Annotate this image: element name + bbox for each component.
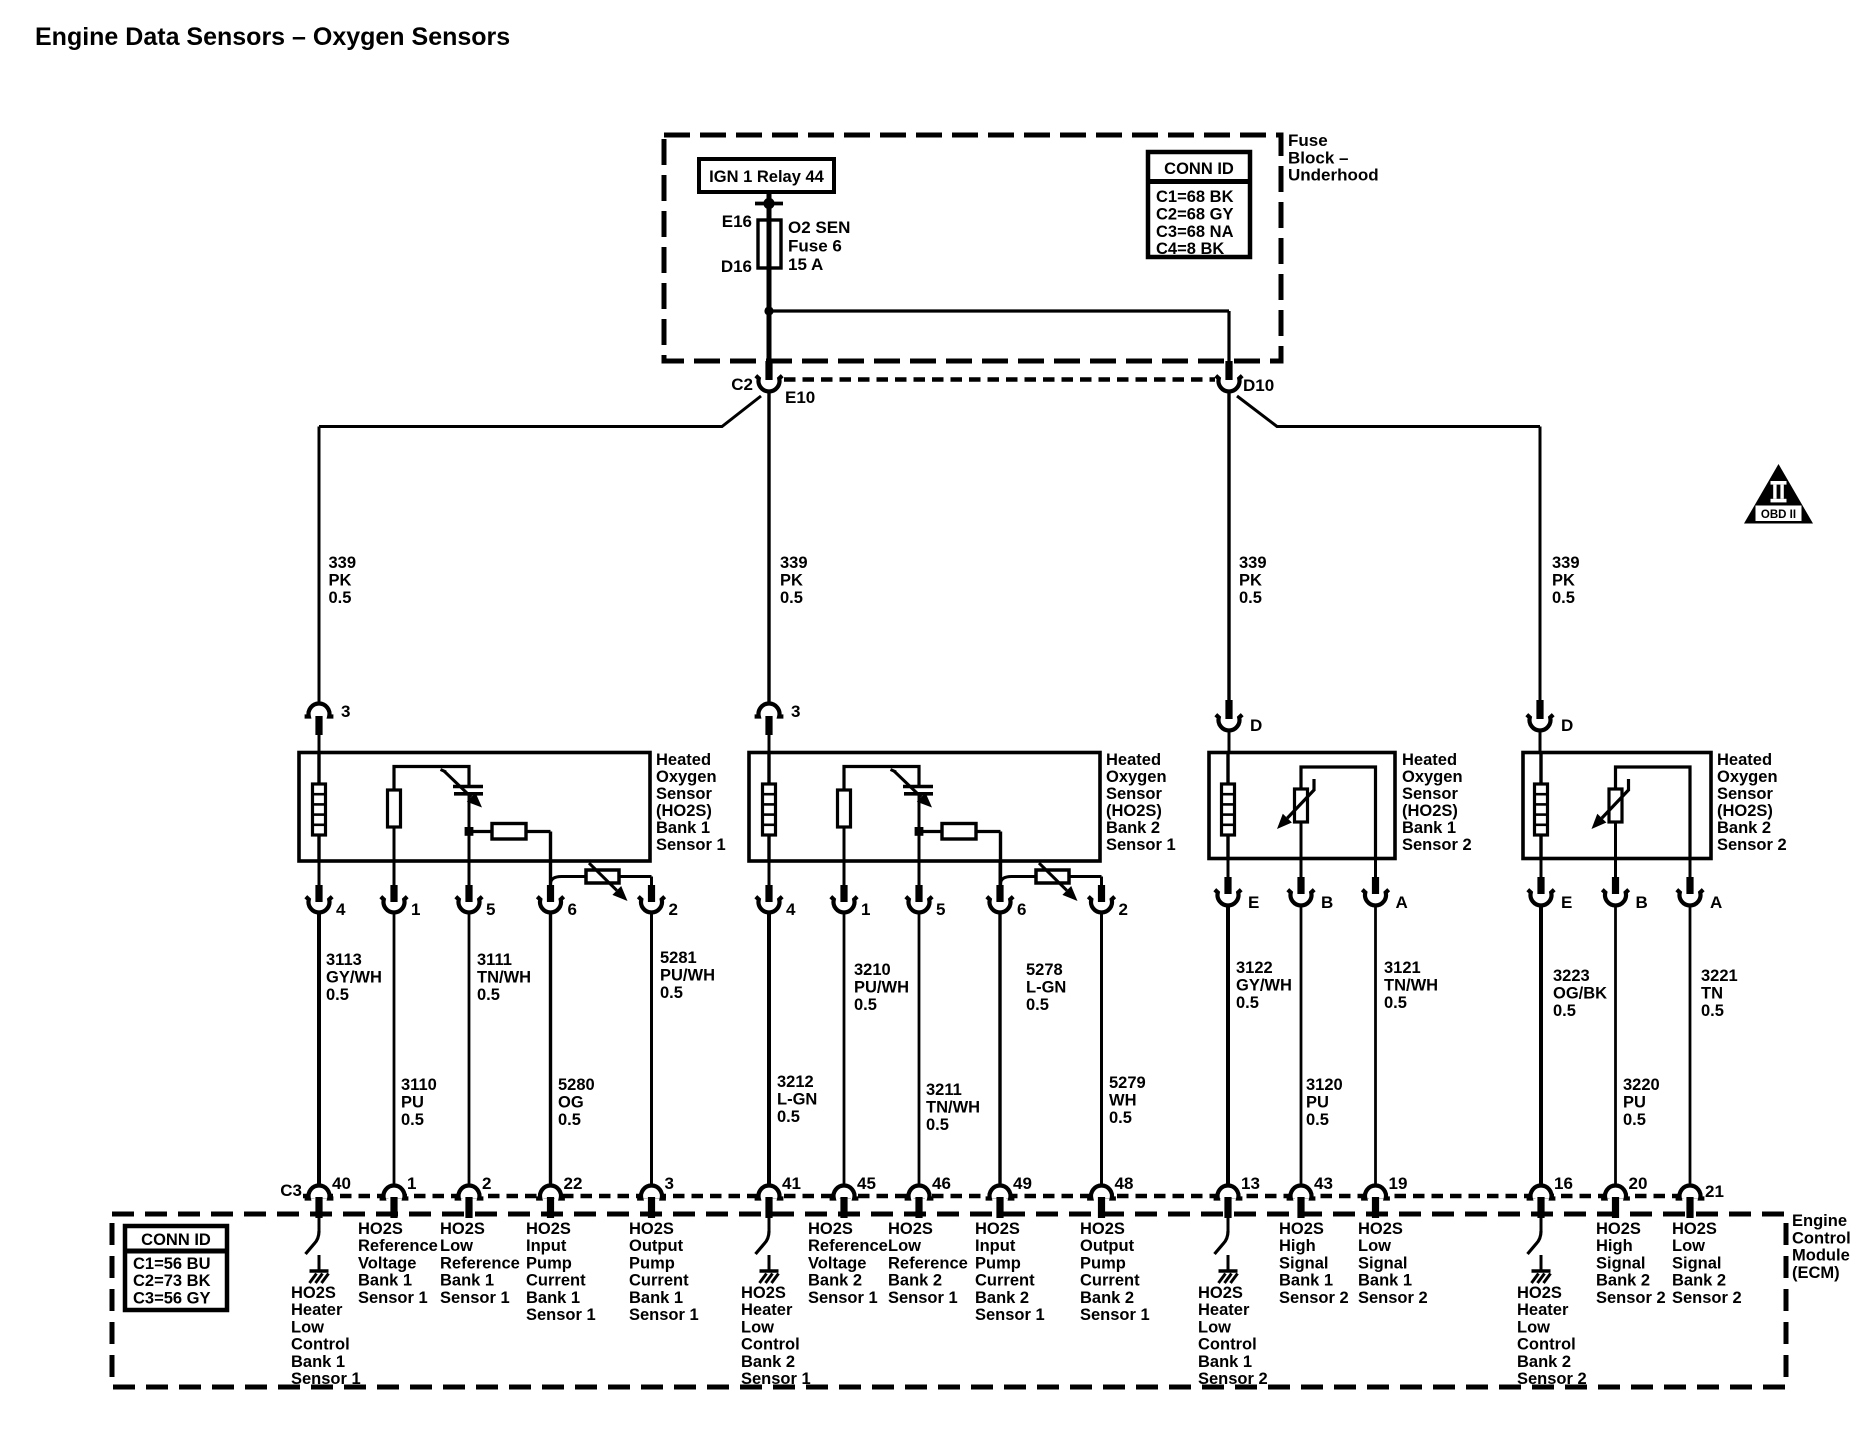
svg-text:(HO2S): (HO2S) — [1106, 802, 1162, 820]
svg-text:1: 1 — [861, 900, 870, 919]
svg-text:High: High — [1279, 1237, 1316, 1255]
svg-text:Bank 1: Bank 1 — [656, 819, 710, 837]
svg-text:Sensor 2: Sensor 2 — [1279, 1289, 1349, 1307]
svg-text:Low: Low — [741, 1318, 774, 1336]
svg-text:0.5: 0.5 — [777, 1108, 800, 1126]
variable arrow (calibration resistor) — [1039, 863, 1067, 890]
svg-text:Sensor 2: Sensor 2 — [1358, 1289, 1428, 1307]
svg-text:Sensor 1: Sensor 1 — [1080, 1306, 1150, 1324]
svg-text:Control: Control — [291, 1336, 350, 1354]
svg-text:5281: 5281 — [660, 949, 697, 967]
wire pin 2 to ECM — [1100, 911, 1103, 1185]
junction node — [465, 827, 474, 836]
svg-text:Low: Low — [440, 1237, 473, 1255]
wire label 3221 TN — [1701, 967, 1738, 1020]
svg-text:WH: WH — [1109, 1092, 1137, 1110]
svg-text:Sensor 2: Sensor 2 — [1717, 836, 1787, 854]
ECM pin function label (Heater Low Control Bank 2 Sensor 1) — [741, 1284, 811, 1388]
wire label 3121 TN/WH — [1384, 959, 1438, 1012]
connector sensor pin 2 — [1098, 885, 1105, 902]
svg-text:PK: PK — [329, 572, 352, 590]
svg-text:Bank 1: Bank 1 — [1358, 1272, 1412, 1290]
ECM connector pin 46 — [909, 1188, 930, 1199]
ECM pin function label (Heater Low Control Bank 2 Sensor 2) — [1517, 1284, 1587, 1388]
connector sensor pin 1 — [393, 861, 396, 885]
svg-text:Bank 2: Bank 2 — [741, 1353, 795, 1371]
wire pin 4 to ECM — [767, 911, 771, 1185]
wire pin B to ECM — [1614, 904, 1617, 1185]
connector sensor pin B — [1300, 858, 1303, 878]
variable arrow (sensing cell) — [891, 770, 897, 773]
svg-text:Heated: Heated — [1106, 751, 1161, 769]
svg-text:Sensor 1: Sensor 1 — [741, 1370, 811, 1388]
connector sensor pin 2 — [648, 885, 655, 902]
svg-text:Sensor 2: Sensor 2 — [1517, 1370, 1587, 1388]
svg-text:3110: 3110 — [401, 1076, 437, 1094]
svg-text:L-GN: L-GN — [777, 1091, 817, 1109]
svg-text:PU: PU — [1623, 1094, 1646, 1112]
svg-text:0.5: 0.5 — [660, 984, 683, 1002]
svg-text:3: 3 — [791, 702, 800, 721]
heater element — [763, 784, 776, 835]
ECM pin function label (Low Signal Bank 2 Sensor 2) — [1672, 1220, 1742, 1307]
wire label 3110 PU — [401, 1076, 437, 1129]
svg-text:Pump: Pump — [975, 1254, 1021, 1272]
wire D10 branch right — [1237, 396, 1540, 427]
svg-text:Low: Low — [1672, 1237, 1705, 1255]
ECM connector pin 41 — [759, 1188, 780, 1199]
svg-text:Sensor: Sensor — [1402, 785, 1459, 803]
svg-text:339: 339 — [1552, 554, 1580, 572]
svg-text:Sensor 1: Sensor 1 — [1106, 836, 1176, 854]
resistor (pump cell trim) — [469, 830, 492, 833]
svg-text:Bank 1: Bank 1 — [526, 1289, 580, 1307]
svg-text:Low: Low — [1198, 1318, 1231, 1336]
connector sensor pin 5 — [918, 861, 921, 885]
wire pin E to ECM — [1539, 904, 1543, 1185]
ECM pin function label (Heater Low Control Bank 1 Sensor 2) — [1198, 1284, 1268, 1388]
svg-text:339: 339 — [329, 554, 357, 572]
svg-text:HO2S: HO2S — [629, 1220, 674, 1238]
connector sensor pin E — [1227, 858, 1230, 878]
ECM connector pin 1 — [384, 1188, 405, 1199]
svg-text:C2=73 BK: C2=73 BK — [133, 1272, 211, 1290]
svg-text:Bank 2: Bank 2 — [1717, 819, 1771, 837]
connector pin 3 (sensor feed) — [305, 704, 334, 717]
svg-text:3: 3 — [341, 702, 350, 721]
svg-text:339: 339 — [780, 554, 808, 572]
wire pin A to ECM — [1374, 904, 1377, 1185]
svg-text:0.5: 0.5 — [326, 986, 349, 1004]
svg-text:(HO2S): (HO2S) — [656, 802, 712, 820]
svg-text:Heater: Heater — [291, 1301, 343, 1319]
wire pump to calibration resistor — [1001, 877, 1037, 885]
svg-text:Heater: Heater — [1517, 1301, 1569, 1319]
ECM pin function label (Input Pump Current Bank 1 Sensor 1) — [526, 1220, 596, 1324]
wire pin 4 to ECM — [317, 911, 321, 1185]
svg-text:Current: Current — [629, 1272, 689, 1290]
HO2S Bank 1 Sensor 2 box — [1209, 753, 1395, 859]
resistor (reference) — [388, 790, 401, 827]
svg-text:13: 13 — [1241, 1174, 1260, 1193]
ECM pin function label (Heater Low Control Bank 1 Sensor 1) — [291, 1284, 361, 1388]
svg-text:Sensor 2: Sensor 2 — [1672, 1289, 1742, 1307]
ECM connector pin 2 — [459, 1188, 480, 1199]
svg-text:Bank 2: Bank 2 — [1080, 1289, 1134, 1307]
wire label 5279 WH — [1109, 1074, 1146, 1127]
svg-text:21: 21 — [1705, 1182, 1724, 1201]
svg-text:Voltage: Voltage — [808, 1254, 866, 1272]
wire pin B to ECM — [1300, 904, 1303, 1185]
svg-text:Reference: Reference — [808, 1237, 888, 1255]
svg-text:Control: Control — [1517, 1336, 1576, 1354]
svg-text:Bank 1: Bank 1 — [291, 1353, 345, 1371]
svg-text:Bank 1: Bank 1 — [1279, 1272, 1333, 1290]
ECM dashed box — [112, 1214, 1786, 1387]
svg-text:Heated: Heated — [1402, 751, 1457, 769]
svg-text:Oxygen: Oxygen — [1106, 768, 1167, 786]
svg-text:TN: TN — [1701, 985, 1723, 1003]
svg-text:HO2S: HO2S — [888, 1220, 933, 1238]
svg-text:Fuse: Fuse — [1288, 131, 1328, 150]
svg-text:Sensor 1: Sensor 1 — [629, 1306, 699, 1324]
ECM pin function label (Low Signal Bank 1 Sensor 2) — [1358, 1220, 1428, 1307]
connector sensor pin 6 — [999, 861, 1002, 885]
svg-text:Bank 1: Bank 1 — [629, 1289, 683, 1307]
variable arrow (sensing cell) — [441, 770, 447, 773]
svg-text:Output: Output — [1080, 1237, 1135, 1255]
svg-text:HO2S: HO2S — [440, 1220, 485, 1238]
svg-text:D16: D16 — [721, 257, 752, 276]
svg-text:C4=8 BK: C4=8 BK — [1156, 240, 1224, 258]
svg-text:HO2S: HO2S — [1279, 1220, 1324, 1238]
svg-text:HO2S: HO2S — [526, 1220, 571, 1238]
ECM connector pin 45 — [834, 1188, 855, 1199]
svg-text:0.5: 0.5 — [401, 1111, 424, 1129]
wire E10 branch left — [319, 396, 761, 427]
svg-text:Voltage: Voltage — [358, 1254, 416, 1272]
connector dotted line C2-D10 — [784, 377, 1215, 381]
svg-text:Bank 2: Bank 2 — [1596, 1272, 1650, 1290]
svg-text:Sensor 1: Sensor 1 — [358, 1289, 428, 1307]
svg-text:Sensor 1: Sensor 1 — [656, 836, 726, 854]
svg-text:Input: Input — [975, 1237, 1016, 1255]
reference cell wiring — [844, 767, 919, 791]
heater element wire — [317, 753, 320, 861]
resistor (pump cell trim) — [919, 830, 942, 833]
svg-text:Output: Output — [629, 1237, 684, 1255]
connector sensor pin 5 — [468, 861, 471, 885]
svg-text:Low: Low — [1517, 1318, 1550, 1336]
svg-text:20: 20 — [1629, 1174, 1648, 1193]
svg-text:0.5: 0.5 — [854, 996, 877, 1014]
svg-text:OBD II: OBD II — [1761, 509, 1796, 521]
wire label 339 PK 0.5 — [780, 554, 808, 607]
HO2S Bank 2 Sensor 1 label — [1106, 751, 1176, 854]
sensing cell (Nernst cell) — [453, 785, 483, 789]
wire pump to calibration resistor — [551, 877, 587, 885]
svg-text:5280: 5280 — [558, 1076, 595, 1094]
fuse block label — [1288, 131, 1379, 185]
svg-text:PU/WH: PU/WH — [660, 967, 715, 985]
svg-text:E: E — [1561, 893, 1572, 912]
svg-text:19: 19 — [1389, 1174, 1408, 1193]
svg-text:Current: Current — [526, 1272, 586, 1290]
svg-text:C1=56 BU: C1=56 BU — [133, 1255, 211, 1273]
svg-text:Heater: Heater — [1198, 1301, 1250, 1319]
svg-text:C2=68 GY: C2=68 GY — [1156, 205, 1234, 223]
svg-text:Block –: Block – — [1288, 148, 1348, 167]
svg-text:2: 2 — [482, 1174, 491, 1193]
svg-text:Current: Current — [1080, 1272, 1140, 1290]
svg-text:3221: 3221 — [1701, 967, 1738, 985]
wire label 5278 L-GN — [1026, 961, 1066, 1014]
wire label 339 PK 0.5 — [329, 554, 357, 607]
svg-text:Input: Input — [526, 1237, 567, 1255]
svg-text:D: D — [1561, 716, 1573, 735]
variable arrow (sensing element) — [1627, 779, 1630, 791]
svg-text:Reference: Reference — [888, 1254, 968, 1272]
wire pin E to ECM — [1226, 904, 1230, 1185]
svg-text:Bank 2: Bank 2 — [1106, 819, 1160, 837]
ECM connector pin 13 — [1218, 1188, 1239, 1199]
resistor (reference) — [838, 790, 851, 827]
svg-text:6: 6 — [568, 900, 577, 919]
svg-text:Sensor 1: Sensor 1 — [291, 1370, 361, 1388]
svg-text:Bank 2: Bank 2 — [888, 1272, 942, 1290]
svg-text:3: 3 — [665, 1174, 674, 1193]
svg-text:B: B — [1321, 893, 1333, 912]
svg-text:0.5: 0.5 — [926, 1116, 949, 1134]
svg-text:PK: PK — [1552, 572, 1575, 590]
ECM label — [1792, 1212, 1851, 1282]
svg-text:Oxygen: Oxygen — [1402, 768, 1463, 786]
svg-text:0.5: 0.5 — [1239, 589, 1262, 607]
svg-text:Fuse 6: Fuse 6 — [788, 237, 842, 256]
svg-text:40: 40 — [332, 1174, 351, 1193]
svg-text:3121: 3121 — [1384, 959, 1421, 977]
connector sensor pin A — [1374, 858, 1377, 878]
svg-text:HO2S: HO2S — [975, 1220, 1020, 1238]
svg-text:0.5: 0.5 — [558, 1111, 581, 1129]
heater element — [1535, 784, 1548, 835]
connector sensor pin 6 — [549, 861, 552, 885]
wire feed to D10 — [769, 309, 1229, 312]
svg-text:TN/WH: TN/WH — [926, 1099, 980, 1117]
svg-text:HO2S: HO2S — [1596, 1220, 1641, 1238]
svg-text:TN/WH: TN/WH — [1384, 977, 1438, 995]
svg-text:Bank 2: Bank 2 — [1517, 1353, 1571, 1371]
svg-text:4: 4 — [786, 900, 796, 919]
svg-text:HO2S: HO2S — [1198, 1284, 1243, 1302]
svg-text:GY/WH: GY/WH — [326, 969, 382, 987]
svg-text:Signal: Signal — [1358, 1254, 1408, 1272]
heater element — [1222, 784, 1235, 835]
wire label 3223 OG/BK — [1553, 967, 1607, 1020]
svg-text:E16: E16 — [722, 212, 752, 231]
svg-text:B: B — [1636, 893, 1648, 912]
wire label 3122 GY/WH — [1236, 959, 1292, 1012]
svg-text:0.5: 0.5 — [329, 589, 352, 607]
ECM connector pin 3 — [641, 1188, 662, 1199]
svg-text:PU/WH: PU/WH — [854, 979, 909, 997]
connector sensor pin E — [1540, 858, 1543, 878]
ECM connector pin 20 — [1605, 1188, 1626, 1199]
svg-text:PK: PK — [780, 572, 803, 590]
connector C2/E10 — [765, 361, 772, 380]
svg-text:Sensor 1: Sensor 1 — [888, 1289, 958, 1307]
svg-text:HO2S: HO2S — [1517, 1284, 1562, 1302]
HO2S heater low control driver (switch to ground) — [1540, 1214, 1543, 1233]
wire pin 6 to ECM — [549, 911, 552, 1185]
svg-text:16: 16 — [1554, 1174, 1573, 1193]
svg-text:Heater: Heater — [741, 1301, 793, 1319]
svg-text:PK: PK — [1239, 572, 1262, 590]
svg-text:Bank 1: Bank 1 — [1402, 819, 1456, 837]
svg-text:Module: Module — [1792, 1247, 1850, 1265]
svg-text:Bank 2: Bank 2 — [1672, 1272, 1726, 1290]
svg-text:15 A: 15 A — [788, 255, 823, 274]
svg-text:Engine: Engine — [1792, 1212, 1847, 1230]
svg-text:D10: D10 — [1243, 376, 1274, 395]
calibration resistor (laser trimmed) — [1036, 870, 1069, 883]
connector pin 3 (sensor feed) — [755, 704, 784, 717]
wire pin 6 to ECM — [998, 911, 1001, 1185]
svg-text:Engine Data Sensors – Oxygen S: Engine Data Sensors – Oxygen Sensors — [35, 23, 510, 51]
svg-text:Control: Control — [1792, 1229, 1851, 1247]
svg-text:3211: 3211 — [926, 1081, 962, 1099]
svg-text:5: 5 — [936, 900, 945, 919]
svg-text:2: 2 — [1119, 900, 1128, 919]
ECM pin function label (Output Pump Current Bank 2 Sensor 1) — [1080, 1220, 1150, 1324]
svg-text:PU: PU — [401, 1094, 424, 1112]
svg-text:6: 6 — [1017, 900, 1026, 919]
svg-text:0.5: 0.5 — [1553, 1002, 1576, 1020]
CONN ID table (fuse block) — [1148, 152, 1250, 257]
ECM pin function label (Low Reference Bank 2 Sensor 1) — [888, 1220, 968, 1307]
ECM pin function label (High Signal Bank 2 Sensor 2) — [1596, 1220, 1666, 1307]
svg-text:Pump: Pump — [1080, 1254, 1126, 1272]
ECM pin function label (Reference Voltage Bank 2 Sensor 1) — [808, 1220, 888, 1307]
svg-text:3220: 3220 — [1623, 1076, 1660, 1094]
svg-text:C3=68 NA: C3=68 NA — [1156, 223, 1234, 241]
calibration resistor (laser trimmed) — [586, 870, 619, 883]
svg-text:Reference: Reference — [358, 1237, 438, 1255]
variable arrow (calibration resistor) — [589, 863, 617, 890]
svg-text:(ECM): (ECM) — [1792, 1264, 1840, 1282]
connector sensor pin A — [1689, 858, 1692, 878]
svg-text:Bank 1: Bank 1 — [440, 1272, 494, 1290]
svg-text:(HO2S): (HO2S) — [1402, 802, 1458, 820]
variable resistor (sensing element) — [1609, 789, 1622, 822]
CONN ID table (ECM) — [125, 1226, 227, 1310]
svg-text:Sensor: Sensor — [1717, 785, 1774, 803]
connector sensor pin 4 — [318, 861, 321, 885]
svg-text:E10: E10 — [785, 388, 815, 407]
wire label 339 PK 0.5 — [1239, 554, 1267, 607]
svg-text:3113: 3113 — [326, 951, 362, 969]
svg-text:3122: 3122 — [1236, 959, 1273, 977]
svg-text:0.5: 0.5 — [1623, 1111, 1646, 1129]
HO2S Bank 2 Sensor 2 label — [1717, 751, 1787, 854]
svg-text:E: E — [1248, 893, 1259, 912]
heater element wire — [1226, 753, 1229, 858]
svg-text:48: 48 — [1115, 1174, 1134, 1193]
svg-text:45: 45 — [857, 1174, 876, 1193]
svg-text:L-GN: L-GN — [1026, 979, 1066, 997]
ECM connector pin 40 — [309, 1188, 330, 1199]
connector pin D (sensor feed) — [1225, 700, 1232, 719]
heater element — [313, 784, 326, 835]
svg-text:5: 5 — [486, 900, 495, 919]
svg-text:OG/BK: OG/BK — [1553, 985, 1607, 1003]
wire pin 5 to ECM — [468, 911, 471, 1185]
wire label 3120 PU — [1306, 1076, 1343, 1129]
thermistor wiring — [1616, 767, 1691, 858]
ECM connector pin 21 — [1680, 1188, 1701, 1199]
svg-text:4: 4 — [336, 900, 346, 919]
svg-text:Heated: Heated — [1717, 751, 1772, 769]
wire label 5281 PU/WH — [660, 949, 715, 1002]
wire E10 down to HO2S B1S1 — [767, 390, 770, 704]
fuse value label — [788, 218, 850, 274]
connector D10 — [1225, 361, 1232, 380]
svg-text:Bank 1: Bank 1 — [1198, 1353, 1252, 1371]
svg-text:Current: Current — [975, 1272, 1035, 1290]
ECM connector pin 19 — [1365, 1188, 1386, 1199]
svg-text:A: A — [1396, 893, 1408, 912]
HO2S Bank 2 Sensor 2 box — [1523, 753, 1711, 859]
svg-text:Signal: Signal — [1279, 1254, 1329, 1272]
HO2S heater low control driver (switch to ground) — [318, 1214, 321, 1233]
wire pin 1 to ECM — [393, 911, 396, 1185]
svg-text:Sensor 2: Sensor 2 — [1402, 836, 1472, 854]
relay output junction — [755, 202, 783, 206]
svg-text:0.5: 0.5 — [1109, 1109, 1132, 1127]
svg-text:High: High — [1596, 1237, 1633, 1255]
svg-text:3120: 3120 — [1306, 1076, 1343, 1094]
connector pin D (sensor feed) — [1536, 700, 1543, 719]
wire pin 2 to ECM — [650, 911, 653, 1185]
HO2S Bank 1 Sensor 1 box — [299, 753, 650, 862]
svg-text:Control: Control — [741, 1336, 800, 1354]
ECM connector pin 22 — [540, 1188, 561, 1199]
ECM pin function label (High Signal Bank 1 Sensor 2) — [1279, 1220, 1349, 1307]
svg-text:0.5: 0.5 — [780, 589, 803, 607]
wire relay to fuse — [767, 192, 772, 222]
relay IGN 1 Relay 44 box — [699, 159, 834, 192]
svg-text:Sensor 1: Sensor 1 — [440, 1289, 510, 1307]
svg-text:D: D — [1250, 716, 1262, 735]
svg-text:Low: Low — [888, 1237, 921, 1255]
wire label 3220 PU — [1623, 1076, 1660, 1129]
wire label 339 PK 0.5 — [1552, 554, 1580, 607]
wire label 3212 L-GN — [777, 1073, 817, 1126]
ECM connector pin 43 — [1291, 1188, 1312, 1199]
thermistor wiring — [1301, 767, 1376, 858]
heater element wire — [1539, 753, 1542, 858]
svg-text:339: 339 — [1239, 554, 1267, 572]
svg-text:1: 1 — [407, 1174, 416, 1193]
svg-text:Heated: Heated — [656, 751, 711, 769]
OBD II symbol — [1744, 464, 1813, 524]
ECM connector pin 16 — [1531, 1188, 1552, 1199]
svg-text:Sensor 1: Sensor 1 — [808, 1289, 878, 1307]
ECM pin function label (Reference Voltage Bank 1 Sensor 1) — [358, 1220, 438, 1307]
svg-text:(HO2S): (HO2S) — [1717, 802, 1773, 820]
junction node — [915, 827, 924, 836]
variable resistor (sensing element) — [1295, 789, 1308, 822]
